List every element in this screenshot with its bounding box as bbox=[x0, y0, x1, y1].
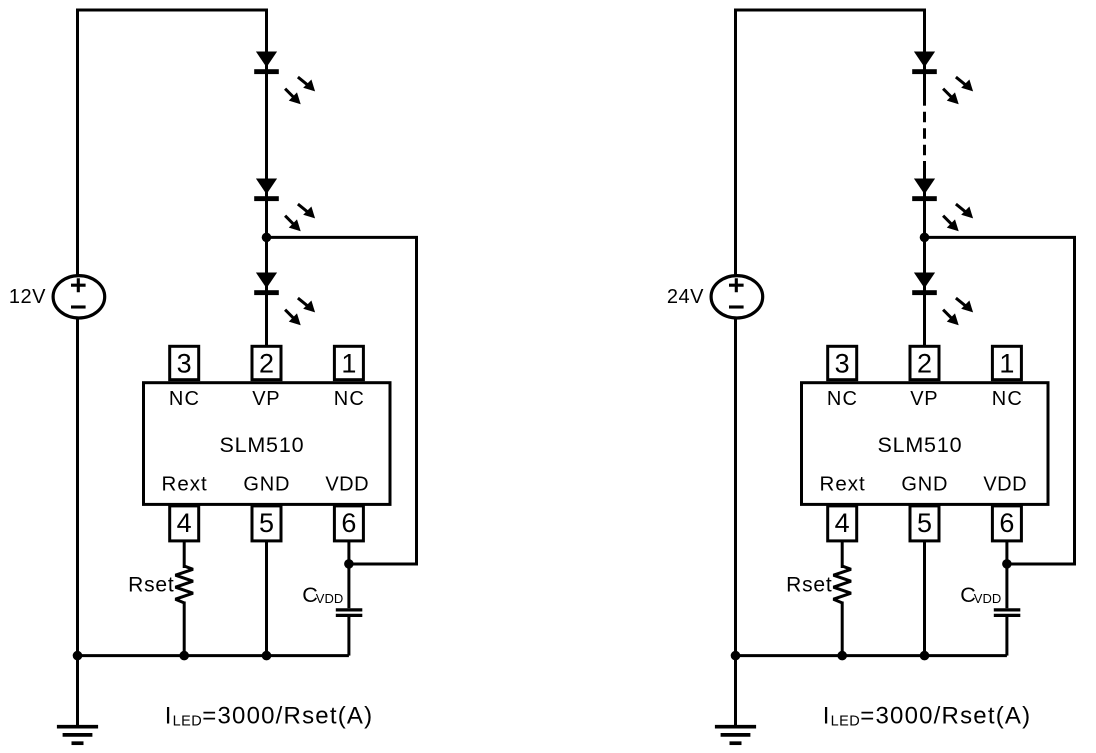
svg-text:SLM510: SLM510 bbox=[219, 433, 304, 457]
wire: source + up left rail and top to D1 anode bbox=[736, 10, 925, 277]
op-amp/driver U2 SLM510 body bbox=[802, 383, 1049, 505]
junction: rail/ground bus bbox=[73, 651, 83, 661]
LED D1 bbox=[254, 52, 315, 105]
wire: pin 4 to Rset bbox=[841, 541, 844, 568]
svg-text:Rext: Rext bbox=[162, 472, 208, 495]
wire: dashed segment (more LEDs implied) bbox=[923, 112, 926, 156]
svg-text:VP: VP bbox=[252, 388, 280, 410]
wire: pin 4 to Rset bbox=[183, 541, 186, 568]
svg-text:2: 2 bbox=[917, 349, 932, 379]
svg-text:5: 5 bbox=[917, 508, 932, 538]
wire: ground bus bbox=[78, 654, 349, 657]
wire: D1 cathode to D2 anode bbox=[265, 73, 268, 180]
svg-text:3: 3 bbox=[177, 349, 192, 379]
svg-text:GND: GND bbox=[901, 473, 948, 495]
wire: node to feedback loop to VDD node bbox=[925, 237, 1075, 564]
svg-text:4: 4 bbox=[835, 508, 850, 538]
wire: pin 5 (GND) to ground bus bbox=[265, 541, 268, 656]
svg-text:24V: 24V bbox=[667, 286, 704, 308]
svg-text:Rext: Rext bbox=[820, 472, 866, 495]
svg-text:Rset: Rset bbox=[786, 574, 832, 597]
wire: capacitor to ground bus bbox=[1005, 617, 1008, 656]
voltage source 12V bbox=[53, 276, 105, 318]
node: LED/VP junction bbox=[262, 233, 272, 243]
svg-text:6: 6 bbox=[999, 508, 1014, 538]
LED D4 bbox=[912, 52, 973, 105]
svg-text:NC: NC bbox=[334, 388, 365, 410]
pin 5 box bbox=[252, 506, 281, 541]
junction: Rset/ground bus bbox=[837, 651, 847, 661]
pin 1 box bbox=[992, 346, 1021, 379]
wire: node to D3 anode bbox=[265, 237, 268, 274]
svg-text:1: 1 bbox=[341, 349, 356, 379]
svg-text:2: 2 bbox=[259, 349, 274, 379]
svg-text:VP: VP bbox=[910, 388, 938, 410]
wire: source + up left rail and top to D1 anode bbox=[78, 10, 267, 277]
resistor Rset bbox=[833, 566, 851, 603]
svg-text:ILED=3000/Rset(A): ILED=3000/Rset(A) bbox=[823, 702, 1032, 729]
wire: capacitor to ground bus bbox=[347, 617, 350, 656]
ground symbol bbox=[57, 727, 98, 744]
svg-text:ILED=3000/Rset(A): ILED=3000/Rset(A) bbox=[165, 702, 374, 729]
node: LED/VP junction bbox=[920, 233, 930, 243]
pin 3 box bbox=[828, 346, 857, 379]
LED D6 bbox=[912, 273, 973, 326]
svg-text:4: 4 bbox=[177, 508, 192, 538]
svg-text:3: 3 bbox=[835, 349, 850, 379]
pin 1 box bbox=[334, 346, 363, 379]
wire: node to feedback loop to VDD node bbox=[267, 237, 417, 564]
wire: D6 cathode to pin 2 bbox=[923, 295, 926, 348]
wire: node to D6 anode bbox=[923, 237, 926, 274]
svg-text:NC: NC bbox=[169, 388, 200, 410]
wire: pin 6 (VDD) down to capacitor bbox=[1005, 541, 1008, 608]
junction: Rset/ground bus bbox=[179, 651, 189, 661]
LED D3 bbox=[254, 273, 315, 326]
wire: pin 5 (GND) to ground bus bbox=[923, 541, 926, 656]
wire: solid part to D5 anode bbox=[923, 161, 926, 180]
wire: pin 6 (VDD) down to capacitor bbox=[347, 541, 350, 608]
pin 6 box bbox=[334, 506, 363, 541]
ground symbol bbox=[715, 727, 756, 744]
svg-text:1: 1 bbox=[999, 349, 1014, 379]
pin 2 box bbox=[252, 346, 281, 379]
wire: source - down left rail to ground bbox=[76, 317, 79, 726]
wire: Rset to ground bus bbox=[841, 602, 844, 656]
svg-text:GND: GND bbox=[243, 473, 290, 495]
wire: D3 cathode to pin 2 bbox=[265, 295, 268, 348]
wire: Rset to ground bus bbox=[183, 602, 186, 656]
junction: rail/ground bus bbox=[731, 651, 741, 661]
node: VDD/feedback junction bbox=[1002, 559, 1012, 569]
wire: D2 cathode to node bbox=[265, 200, 268, 237]
wire: ground bus bbox=[736, 654, 1007, 657]
wire: D4 cathode down (solid part) bbox=[923, 73, 926, 106]
pin 5 box bbox=[910, 506, 939, 541]
voltage source 24V bbox=[711, 276, 763, 318]
pin 2 box bbox=[910, 346, 939, 379]
svg-text:SLM510: SLM510 bbox=[877, 433, 962, 457]
resistor Rset bbox=[175, 566, 193, 603]
svg-text:6: 6 bbox=[341, 508, 356, 538]
pin 3 box bbox=[170, 346, 199, 379]
svg-text:Rset: Rset bbox=[128, 574, 174, 597]
wire: source - down left rail to ground bbox=[734, 317, 737, 726]
LED D2 bbox=[254, 179, 315, 232]
svg-text:12V: 12V bbox=[9, 286, 46, 308]
capacitor C_VDD bbox=[994, 610, 1021, 616]
pin 4 box bbox=[828, 506, 857, 541]
svg-text:VDD: VDD bbox=[325, 473, 369, 495]
svg-text:VDD: VDD bbox=[974, 591, 1001, 606]
pin 4 box bbox=[170, 506, 199, 541]
junction: pin5/ground bus bbox=[262, 651, 272, 661]
svg-text:NC: NC bbox=[827, 388, 858, 410]
wire: D5 cathode to node bbox=[923, 200, 926, 237]
capacitor C_VDD bbox=[336, 610, 363, 616]
svg-text:5: 5 bbox=[259, 508, 274, 538]
svg-text:NC: NC bbox=[992, 388, 1023, 410]
LED D5 bbox=[912, 179, 973, 232]
svg-text:VDD: VDD bbox=[316, 591, 343, 606]
svg-text:VDD: VDD bbox=[983, 473, 1027, 495]
pin 6 box bbox=[992, 506, 1021, 541]
op-amp/driver U1 SLM510 body bbox=[144, 383, 391, 505]
node: VDD/feedback junction bbox=[344, 559, 354, 569]
junction: pin5/ground bus bbox=[920, 651, 930, 661]
